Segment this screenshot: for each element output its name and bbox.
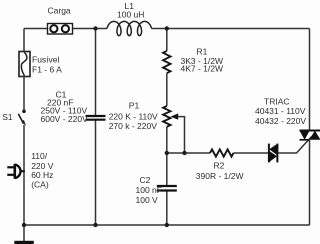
svg-text:C2: C2 (140, 175, 151, 185)
wire bottom rail (24, 224, 310, 226)
potentiometer P1 (163, 106, 170, 127)
P1 wiper arrow (171, 113, 179, 119)
node gate-middle junction (165, 151, 169, 155)
svg-text:TRIAC: TRIAC (264, 97, 290, 107)
wire C1 branch (95, 29, 97, 226)
svg-text:40431 - 110V: 40431 - 110V (255, 106, 306, 116)
load (Carga) socket symbol (48, 24, 73, 35)
svg-text:Fusível: Fusível (32, 55, 60, 65)
svg-text:F1 - 6 A: F1 - 6 A (32, 65, 62, 75)
svg-text:Carga: Carga (48, 6, 71, 16)
node top-middle junction (165, 26, 169, 30)
svg-text:100 nF: 100 nF (136, 185, 162, 195)
wire middle rail (166, 29, 168, 226)
wire left rail (23, 29, 25, 242)
svg-text:390R - 1/2W: 390R - 1/2W (196, 171, 244, 181)
svg-text:110/: 110/ (31, 151, 48, 161)
svg-text:(CA): (CA) (31, 179, 49, 189)
svg-text:100 V: 100 V (136, 195, 159, 205)
wire gate net (167, 137, 312, 153)
svg-text:4K7 - 1/2W: 4K7 - 1/2W (181, 63, 224, 73)
wire right rail (309, 29, 311, 226)
node bottom-left junction (22, 223, 26, 227)
switch S1 (18, 110, 26, 126)
node bottom-C1 junction (93, 223, 97, 227)
triac TR1 (299, 131, 320, 140)
ground (14, 241, 34, 244)
capacitor C1 (86, 116, 106, 120)
capacitor C2 (157, 186, 177, 191)
svg-text:S1: S1 (2, 112, 13, 122)
fuse F1 (19, 52, 30, 77)
diac D1 (269, 144, 278, 163)
svg-text:270 k - 220V: 270 k - 220V (109, 121, 158, 131)
svg-text:R2: R2 (214, 161, 225, 171)
wire P1 wiper branch (177, 117, 185, 153)
resistor R2 (210, 149, 234, 156)
resistor R1 (163, 51, 170, 73)
node wiper junction (182, 151, 186, 155)
plug AC source (7, 164, 25, 179)
node top-C1 junction (93, 26, 97, 30)
svg-text:40432 - 220V: 40432 - 220V (255, 116, 306, 126)
svg-text:100 uH: 100 uH (117, 10, 144, 20)
wire top rail (24, 28, 310, 30)
node bottom-middle junction (165, 223, 169, 227)
svg-text:600V - 220V: 600V - 220V (41, 114, 89, 124)
svg-text:P1: P1 (129, 101, 140, 111)
inductor L1 (107, 21, 152, 35)
